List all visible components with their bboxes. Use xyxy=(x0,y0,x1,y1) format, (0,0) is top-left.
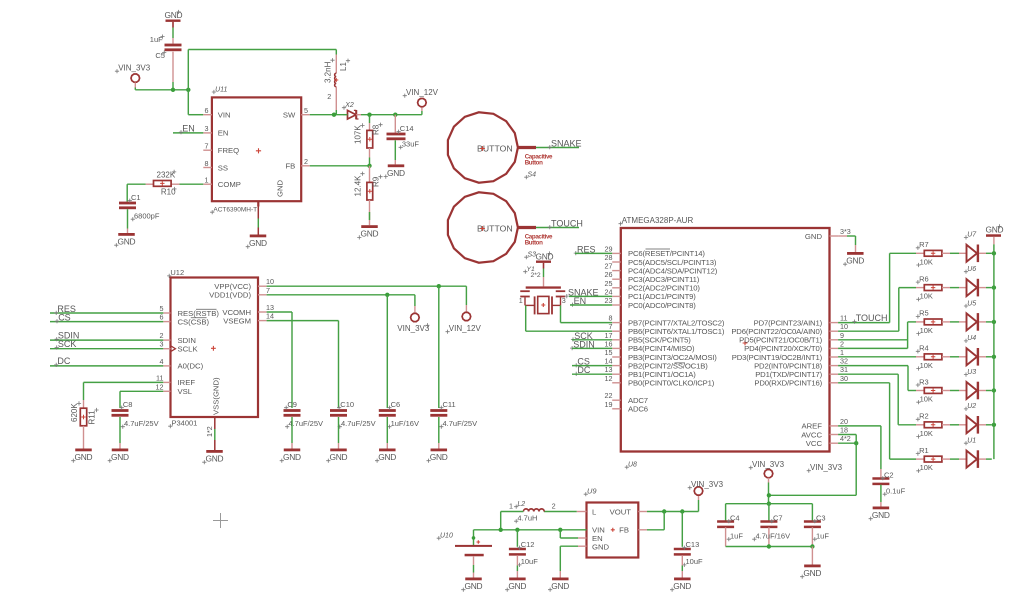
svg-text:3: 3 xyxy=(562,296,566,305)
svg-text:10K: 10K xyxy=(920,463,933,472)
svg-text:GND: GND xyxy=(803,568,821,578)
svg-text:CS(CSB): CS(CSB) xyxy=(178,317,210,326)
svg-text:SS: SS xyxy=(218,163,228,172)
svg-text:8: 8 xyxy=(205,159,209,168)
svg-text:GND: GND xyxy=(536,252,554,262)
svg-text:R3: R3 xyxy=(919,377,929,386)
svg-text:VIN_3V3: VIN_3V3 xyxy=(397,324,430,333)
svg-text:C4: C4 xyxy=(730,514,740,523)
svg-text:C9: C9 xyxy=(287,400,297,409)
svg-text:33uF: 33uF xyxy=(402,140,420,149)
svg-text:U4: U4 xyxy=(967,335,976,342)
svg-text:11: 11 xyxy=(156,373,163,382)
svg-text:GND: GND xyxy=(872,510,890,520)
svg-text:U3: U3 xyxy=(967,369,976,376)
svg-text:R7: R7 xyxy=(919,240,929,249)
svg-text:GND: GND xyxy=(249,238,267,248)
svg-text:C8: C8 xyxy=(123,400,133,409)
svg-text:ATMEGA328P-AUR: ATMEGA328P-AUR xyxy=(622,216,694,225)
svg-text:PD0(RXD/PCINT16): PD0(RXD/PCINT16) xyxy=(754,379,822,388)
svg-text:VIN: VIN xyxy=(218,111,231,120)
svg-text:GND: GND xyxy=(378,452,396,462)
svg-text:2*2: 2*2 xyxy=(531,272,541,279)
svg-text:GND: GND xyxy=(846,256,864,266)
svg-text:VIN_12V: VIN_12V xyxy=(449,324,482,333)
svg-text:GND: GND xyxy=(111,452,129,462)
svg-text:1uF: 1uF xyxy=(816,532,829,541)
svg-text:DC: DC xyxy=(57,356,70,366)
svg-text:U11: U11 xyxy=(215,86,227,93)
svg-text:1*2: 1*2 xyxy=(205,426,214,437)
svg-text:R1: R1 xyxy=(919,446,929,455)
svg-text:GND: GND xyxy=(508,581,526,591)
svg-text:3.2nH: 3.2nH xyxy=(324,61,333,83)
svg-text:C6: C6 xyxy=(391,400,401,409)
svg-text:10K: 10K xyxy=(920,326,933,335)
svg-text:107K: 107K xyxy=(354,125,363,144)
svg-text:C12: C12 xyxy=(521,540,535,549)
svg-text:VIN_12V: VIN_12V xyxy=(406,88,439,97)
svg-text:TOUCH: TOUCH xyxy=(551,219,583,229)
svg-text:U1: U1 xyxy=(967,438,976,445)
svg-text:U7: U7 xyxy=(967,232,977,239)
svg-text:R4: R4 xyxy=(919,344,929,353)
svg-text:C3: C3 xyxy=(816,514,826,523)
svg-text:6800pF: 6800pF xyxy=(134,212,160,221)
svg-text:SW: SW xyxy=(283,111,296,120)
svg-text:18: 18 xyxy=(840,426,848,435)
svg-text:VIN_3V3: VIN_3V3 xyxy=(810,463,843,472)
svg-text:CS: CS xyxy=(58,313,71,323)
svg-text:U2: U2 xyxy=(967,403,976,410)
svg-text:FB: FB xyxy=(285,162,295,171)
svg-text:1: 1 xyxy=(205,176,209,185)
svg-text:U6: U6 xyxy=(967,266,976,273)
svg-text:U9: U9 xyxy=(587,487,597,496)
svg-text:GND: GND xyxy=(387,168,405,178)
svg-text:GND: GND xyxy=(283,452,301,462)
svg-text:IREF: IREF xyxy=(178,378,196,387)
svg-text:GND: GND xyxy=(465,581,483,591)
svg-text:GND: GND xyxy=(986,224,1004,234)
svg-text:2: 2 xyxy=(327,92,331,101)
svg-text:19: 19 xyxy=(605,400,613,409)
svg-text:L2: L2 xyxy=(517,501,525,508)
svg-text:EN: EN xyxy=(218,129,229,138)
svg-text:A0(DC): A0(DC) xyxy=(178,362,204,371)
svg-text:4.7uF/25V: 4.7uF/25V xyxy=(443,419,478,428)
svg-text:GND: GND xyxy=(165,10,183,20)
svg-text:4*2: 4*2 xyxy=(840,434,851,443)
svg-text:S4: S4 xyxy=(528,172,537,179)
svg-text:GND: GND xyxy=(551,581,569,591)
svg-text:7: 7 xyxy=(205,142,209,151)
svg-text:COMP: COMP xyxy=(218,180,241,189)
svg-text:R11: R11 xyxy=(88,410,97,425)
svg-text:PB0(PCINT0/CLKO/ICP1): PB0(PCINT0/CLKO/ICP1) xyxy=(628,379,715,388)
svg-text:C13: C13 xyxy=(686,540,700,549)
svg-text:10uF: 10uF xyxy=(686,557,704,566)
svg-text:VIN_3V3: VIN_3V3 xyxy=(691,480,724,489)
svg-text:EN: EN xyxy=(182,124,195,134)
svg-text:C2: C2 xyxy=(884,471,894,480)
svg-text:6: 6 xyxy=(205,106,209,115)
svg-text:1uF/16V: 1uF/16V xyxy=(391,419,419,428)
svg-text:R8: R8 xyxy=(372,124,381,135)
svg-text:10K: 10K xyxy=(920,395,933,404)
svg-text:GND: GND xyxy=(361,229,379,239)
svg-text:R2: R2 xyxy=(919,412,929,421)
svg-text:14: 14 xyxy=(266,312,274,321)
svg-text:VSEGM: VSEGM xyxy=(223,316,251,325)
svg-text:L: L xyxy=(592,508,597,517)
svg-text:U5: U5 xyxy=(967,300,976,307)
svg-text:VIN_3V3: VIN_3V3 xyxy=(752,460,785,469)
svg-text:4: 4 xyxy=(160,357,164,366)
svg-text:C10: C10 xyxy=(340,400,354,409)
svg-text:PC0(ADC0/PCINT8): PC0(ADC0/PCINT8) xyxy=(628,301,696,310)
svg-text:VSL: VSL xyxy=(178,387,193,396)
svg-text:U8: U8 xyxy=(628,462,637,469)
svg-text:C1: C1 xyxy=(131,193,141,202)
svg-text:12: 12 xyxy=(156,382,164,391)
svg-text:L1: L1 xyxy=(339,62,348,71)
svg-text:FREQ: FREQ xyxy=(218,146,239,155)
svg-text:1: 1 xyxy=(509,502,513,511)
svg-text:3: 3 xyxy=(205,124,209,133)
svg-text:VIN_3V3: VIN_3V3 xyxy=(118,64,151,73)
svg-text:4.7uF/25V: 4.7uF/25V xyxy=(341,419,376,428)
svg-text:VOUT: VOUT xyxy=(610,508,632,517)
svg-text:Button: Button xyxy=(525,160,543,167)
svg-text:SCK: SCK xyxy=(58,339,77,349)
svg-text:7: 7 xyxy=(266,286,270,295)
svg-text:C7: C7 xyxy=(773,514,783,523)
svg-text:VCC: VCC xyxy=(806,439,823,448)
svg-text:TOUCH: TOUCH xyxy=(856,313,888,323)
svg-text:1uF: 1uF xyxy=(730,532,743,541)
svg-text:4.7uF/25V: 4.7uF/25V xyxy=(124,419,159,428)
svg-text:ACT6390MH-T: ACT6390MH-T xyxy=(213,207,257,214)
svg-text:GND: GND xyxy=(805,232,823,241)
svg-text:1: 1 xyxy=(519,296,523,305)
svg-text:Button: Button xyxy=(525,240,543,247)
svg-text:VSS(GND): VSS(GND) xyxy=(212,377,221,415)
svg-text:U12: U12 xyxy=(170,268,184,277)
svg-text:GND: GND xyxy=(276,179,285,197)
svg-text:R5: R5 xyxy=(919,309,929,318)
svg-text:10K: 10K xyxy=(920,257,933,266)
svg-text:4.7uF/16V: 4.7uF/16V xyxy=(756,532,791,541)
svg-text:GND: GND xyxy=(75,452,93,462)
svg-text:GND: GND xyxy=(206,454,224,464)
svg-text:12.4K: 12.4K xyxy=(354,175,363,197)
svg-text:12: 12 xyxy=(605,374,613,383)
svg-text:10K: 10K xyxy=(920,292,933,301)
svg-text:4.7uF/25V: 4.7uF/25V xyxy=(288,419,323,428)
svg-text:10uF: 10uF xyxy=(521,557,539,566)
svg-text:C11: C11 xyxy=(443,400,456,409)
svg-text:GND: GND xyxy=(430,452,448,462)
svg-text:GND: GND xyxy=(592,542,610,551)
svg-text:GND: GND xyxy=(118,237,136,247)
svg-text:FB: FB xyxy=(619,526,629,535)
svg-text:GND: GND xyxy=(330,452,348,462)
svg-text:GND: GND xyxy=(673,581,691,591)
svg-text:10K: 10K xyxy=(920,361,933,370)
svg-text:3: 3 xyxy=(160,340,164,349)
svg-text:R9: R9 xyxy=(372,176,381,187)
svg-text:R6: R6 xyxy=(919,274,929,283)
svg-text:4.7uH: 4.7uH xyxy=(517,514,537,523)
svg-text:ADC6: ADC6 xyxy=(628,405,648,414)
svg-text:2: 2 xyxy=(304,157,308,166)
svg-text:10K: 10K xyxy=(920,429,933,438)
svg-text:3*3: 3*3 xyxy=(840,227,851,236)
svg-text:C14: C14 xyxy=(400,124,414,133)
svg-text:SCLK: SCLK xyxy=(178,345,199,354)
svg-text:6: 6 xyxy=(160,313,164,322)
svg-text:U10: U10 xyxy=(440,533,453,540)
svg-text:AVCC: AVCC xyxy=(801,430,822,439)
svg-text:0.1uF: 0.1uF xyxy=(886,487,906,496)
svg-text:5: 5 xyxy=(304,106,308,115)
svg-text:30: 30 xyxy=(840,374,848,383)
svg-text:P34001: P34001 xyxy=(172,419,198,428)
svg-text:SNAKE: SNAKE xyxy=(551,139,582,149)
svg-text:2: 2 xyxy=(552,502,556,511)
svg-text:620K: 620K xyxy=(70,403,79,422)
svg-text:23: 23 xyxy=(605,296,613,305)
svg-text:VDD1(VDD): VDD1(VDD) xyxy=(209,291,251,300)
